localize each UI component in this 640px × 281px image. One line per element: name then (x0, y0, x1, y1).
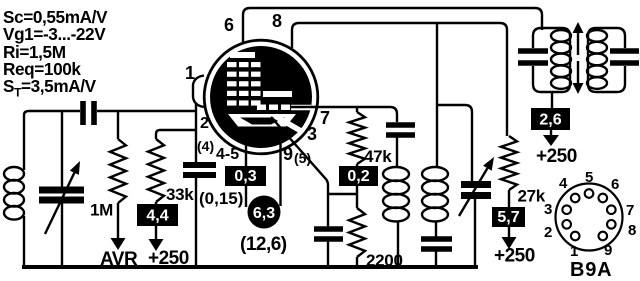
svg-text:0,2: 0,2 (347, 168, 369, 185)
socket pin 4 (571, 194, 580, 203)
heater current box 0,3 (225, 166, 266, 186)
svg-text:7: 7 (626, 202, 634, 219)
svg-text:2: 2 (544, 224, 552, 241)
svg-text:5,7: 5,7 (497, 209, 519, 226)
svg-text:1: 1 (570, 243, 578, 260)
svg-text:9: 9 (604, 242, 612, 259)
resistor R4 2200 (349, 208, 365, 257)
svg-text:7: 7 (320, 108, 330, 128)
capacitor C7 secondary tuning (crossing right side) (610, 48, 639, 54)
wire: bottom ground bus (22, 265, 478, 269)
capacitor C3 oscillator grid cap (386, 122, 415, 128)
wire: pin-3 lead halo inside tube (275, 116, 301, 131)
tube V1 right anode bar (white) (263, 91, 292, 97)
socket pin 7 (607, 205, 616, 214)
svg-text:2,6: 2,6 (539, 112, 561, 129)
wire: oscillator coil branch from pin-8 wire (436, 23, 438, 167)
tube V1 cathode region (white band + black cathode) (228, 114, 296, 127)
svg-text:27k: 27k (518, 187, 546, 206)
wire: primary bottom to 2,6 box (551, 92, 553, 108)
wire: pin-7 lead halo inside tube (291, 105, 311, 111)
socket pin 3 (562, 205, 571, 214)
wire: between C3 and L2 (396, 135, 398, 167)
node +250 arrow (IF transformer supply) (550, 130, 552, 137)
svg-text:6,3: 6,3 (253, 205, 275, 222)
svg-text:4-5: 4-5 (216, 146, 239, 163)
capacitor C4 cathode bypass (314, 226, 343, 232)
inductor L4 primary winding (551, 30, 571, 42)
svg-text:6: 6 (224, 15, 234, 35)
svg-text:(0,15): (0,15) (199, 189, 243, 208)
svg-text:4: 4 (559, 175, 568, 192)
inductor L2 oscillator feedback coil (383, 167, 409, 181)
resistor R1 1M AGC (117, 111, 119, 139)
svg-text:1: 1 (185, 63, 195, 83)
capacitor C2 grid-node bypass (183, 162, 216, 168)
tube V1 right grid dashes (white) (257, 105, 266, 111)
svg-text:9: 9 (283, 144, 293, 164)
node +250 (screen supply) arrow (155, 226, 157, 241)
svg-text:2200: 2200 (366, 251, 403, 270)
svg-text:AVR: AVR (100, 249, 138, 270)
node AVR: arrow to AVR line (117, 203, 119, 240)
node +250 arrow (anode supply) (508, 227, 510, 239)
measured value box 4,4 (137, 204, 178, 226)
svg-text:B9A: B9A (570, 259, 612, 281)
tube V1 anode bar (triode section, white) (230, 52, 255, 58)
svg-text:(4): (4) (197, 138, 214, 154)
IF transformer T1 primary loop (533, 28, 570, 92)
socket pin 9 (599, 232, 608, 241)
measured value box 5,7 (492, 207, 525, 227)
svg-text:3: 3 (544, 201, 552, 218)
IF transformer T1 secondary loop (588, 28, 625, 92)
inductor L5 secondary winding (587, 30, 607, 42)
wire: top signal wire y=111 (antenna tank to grid, with series cap gap) (24, 111, 196, 170)
svg-text:+250: +250 (494, 246, 535, 267)
svg-text:33k: 33k (166, 185, 194, 204)
wire: below 0,2 box to junction and 2200 (356, 186, 358, 208)
wire: L3 bottom to C5 (435, 221, 437, 237)
capacitor C6 primary tuning (crossing left side) (518, 48, 548, 54)
B9A socket outline (556, 184, 623, 251)
capacitor C1 series coupling cap on top wire (80, 101, 86, 125)
svg-text:8: 8 (272, 11, 282, 31)
wire: left rail below coil down to bottom bus (23, 216, 25, 266)
svg-text:47k: 47k (364, 147, 392, 166)
svg-text:+250: +250 (536, 146, 577, 167)
wire: pin-7 lead to oscillator cap/coil branch (290, 107, 397, 122)
resistor R5 27k anode load (501, 136, 517, 190)
heater: pin 4-5 lead down to 0,3 box (245, 130, 247, 166)
tube V1 pin-1 ear (grid cap bump) (193, 76, 204, 108)
socket pin 6 (599, 194, 608, 203)
svg-text:(12,6): (12,6) (240, 234, 287, 255)
svg-text:1M: 1M (90, 201, 113, 220)
socket pin 2 (562, 220, 571, 229)
socket pin 5 (585, 189, 594, 198)
heater supply source 6,3 V (filled circle) (248, 196, 281, 229)
socket pin 1 (571, 232, 580, 241)
wire: pin-3 cathode lead diagonal and down (271, 117, 328, 227)
svg-text:0,3: 0,3 (234, 168, 256, 185)
measured value box 0,2 (339, 166, 378, 186)
measured value box 2,6 (531, 108, 570, 130)
svg-text:4,4: 4,4 (146, 208, 168, 225)
svg-text:+250: +250 (148, 248, 189, 269)
svg-text:5: 5 (585, 169, 593, 186)
inductor L3 oscillator tank coil (422, 167, 448, 181)
socket pin 8 (607, 220, 616, 229)
tuning arrows between windings (577, 31, 579, 55)
variable capacitor CV1 antenna tuning (39, 187, 84, 194)
wire: pin-2 vertical (grid node) down to bypass cap and bus (195, 104, 197, 163)
svg-text:8: 8 (628, 222, 636, 239)
variable capacitor CV2 oscillator tuning (461, 181, 491, 188)
resistor R2 33k screen feed (156, 130, 196, 139)
wire: junction to pin-3 cathode line (328, 193, 357, 195)
wire: oscillator varcap branch feed (437, 105, 472, 182)
tube V1 envelope (solid disk with ring) (204, 40, 318, 154)
inductor L1 antenna coil (in series with left rail) (4, 167, 24, 181)
svg-text:3: 3 (307, 124, 317, 144)
wire: variable-capacitor branch of antenna tank (61, 111, 63, 188)
wire: L2 bottom to bus (397, 221, 399, 267)
annotation: tube operating data (3, 9, 107, 102)
capacitor C5 oscillator tank series cap (421, 236, 452, 242)
heater: pin 9 lead down to heater source (279, 130, 281, 206)
wire: pin-6 lead up and over to IF transformer (243, 8, 542, 42)
wire: 0,3 box to heater source circle (245, 186, 247, 207)
svg-text:6: 6 (611, 176, 619, 193)
svg-text:2: 2 (200, 115, 209, 132)
tube V1 grid dashes (white) (227, 62, 237, 67)
svg-text:(5): (5) (294, 150, 311, 166)
wire: CV2 to bus (474, 195, 476, 267)
wire: pin-8 lead up and right to oscillator tank / 27k (292, 23, 507, 136)
resistor R3 47k (356, 107, 358, 112)
